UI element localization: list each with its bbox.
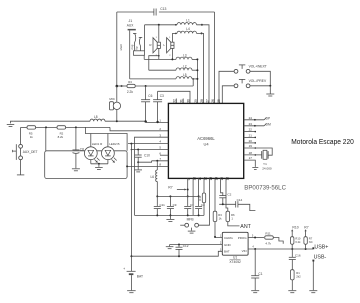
inductor L4 xyxy=(175,27,203,34)
svg-text:C12: C12 xyxy=(183,244,189,248)
net label USB- xyxy=(312,254,326,261)
svg-text:L5: L5 xyxy=(183,73,187,77)
svg-text:shell: shell xyxy=(119,44,123,51)
svg-text:L6: L6 xyxy=(150,175,154,179)
svg-text:C3: C3 xyxy=(160,94,164,98)
svg-text:VOL+/NEXT: VOL+/NEXT xyxy=(249,64,267,68)
svg-text:CHRG: CHRG xyxy=(224,236,233,240)
capacitor C9 xyxy=(167,196,177,215)
wire U4 bottom pin9 xyxy=(187,178,189,197)
ground battery xyxy=(127,291,135,293)
svg-text:C10: C10 xyxy=(144,154,150,158)
svg-text:29: 29 xyxy=(194,99,198,103)
svg-text:32: 32 xyxy=(173,99,177,103)
svg-text:R10: R10 xyxy=(295,236,300,240)
wire speaker R pin line xyxy=(158,25,160,60)
wire L5 row xyxy=(130,78,198,80)
capacitor C11 xyxy=(154,196,165,215)
resistor R11 4.7k xyxy=(265,232,274,246)
svg-text:19: 19 xyxy=(249,144,253,148)
svg-text:MFB: MFB xyxy=(187,217,195,221)
capacitor C6 xyxy=(141,86,153,121)
battery BAT xyxy=(123,256,143,290)
svg-text:22: 22 xyxy=(249,128,253,132)
U4 top pin numbers xyxy=(173,99,221,103)
ground main rail left xyxy=(7,121,15,126)
svg-text:21: 21 xyxy=(249,134,253,138)
ground U1 GND xyxy=(166,247,174,249)
resistor R6 1 xyxy=(226,211,235,221)
U1 pin numbers xyxy=(220,234,255,251)
wire U1 VIN rail xyxy=(248,247,314,250)
svg-text:8.2k: 8.2k xyxy=(58,135,64,139)
wire U1 PROG xyxy=(248,237,264,239)
connector AUX_DET xyxy=(13,127,38,174)
wire R3 to U1 CHRG xyxy=(214,222,222,238)
LED2 B xyxy=(102,134,120,164)
net label USB+ xyxy=(314,245,328,251)
wire U4 bottom pin16 to R6 xyxy=(226,178,228,211)
ground LEDs xyxy=(95,167,103,169)
inductor L6 xyxy=(150,161,157,197)
svg-text:18: 18 xyxy=(249,151,253,155)
wire right vertical from top rail to U4 xyxy=(214,12,216,103)
wire U4 pin18 to crystal xyxy=(244,154,262,156)
connector J1 tip label xyxy=(135,46,139,49)
ground pin17 xyxy=(252,167,258,169)
svg-text:XT4052: XT4052 xyxy=(229,260,241,264)
wire U4 bottom pin12 / resistor R12 xyxy=(198,178,206,215)
wire mic row up to L5 row xyxy=(192,79,194,86)
svg-text:USB-: USB- xyxy=(314,254,327,260)
svg-text:31: 31 xyxy=(180,99,184,103)
svg-text:24.000: 24.000 xyxy=(262,166,272,170)
connector J1 shell label xyxy=(119,44,123,51)
label BP00739-56LC xyxy=(244,184,286,191)
svg-text:28: 28 xyxy=(200,99,204,103)
svg-text:U1: U1 xyxy=(233,256,237,260)
svg-text:AUX: AUX xyxy=(127,24,134,28)
wire R5/R2 row xyxy=(21,126,169,130)
svg-text:L3: L3 xyxy=(183,54,187,58)
svg-text:24: 24 xyxy=(249,116,253,120)
svg-text:C16: C16 xyxy=(295,253,301,257)
wire U4 pin5 xyxy=(131,149,169,151)
svg-text:BP00739-56LC: BP00739-56LC xyxy=(244,184,286,191)
connector J1 body bar xyxy=(128,29,136,31)
U4 bottom pin numbers xyxy=(187,177,229,181)
svg-text:20: 20 xyxy=(249,139,253,143)
wire SW2 right to ground xyxy=(250,85,271,94)
svg-text:USB+: USB+ xyxy=(314,245,328,251)
U4 top pin stubs xyxy=(176,99,183,104)
svg-text:25: 25 xyxy=(217,99,221,103)
svg-text:L2: L2 xyxy=(183,64,187,68)
svg-text:ANT: ANT xyxy=(240,224,251,230)
connector J1 ring label xyxy=(130,44,134,49)
wire main rail xyxy=(13,120,168,123)
capacitor C4 xyxy=(195,196,205,215)
capacitor C7 xyxy=(184,196,194,215)
connector J1 shell pin wire xyxy=(129,30,131,79)
svg-text:C11: C11 xyxy=(160,203,166,207)
net label ANT xyxy=(240,224,251,230)
capacitor C13 xyxy=(154,7,167,16)
svg-text:C9: C9 xyxy=(173,203,177,207)
U4 right pin numbers xyxy=(249,116,253,160)
capacitor C1 xyxy=(251,249,263,290)
capacitor C12 xyxy=(176,244,189,256)
LED module box xyxy=(45,151,127,179)
U4 IC body xyxy=(168,103,243,178)
wire cap row top rail xyxy=(156,195,198,197)
svg-text:GND: GND xyxy=(224,243,232,247)
capacitor C8 xyxy=(73,127,85,168)
capacitor C16 xyxy=(289,249,301,270)
svg-text:L4: L4 xyxy=(186,27,190,31)
wire C2 node rail xyxy=(219,203,236,205)
wire SW1 right xyxy=(250,71,270,86)
switch SW1 VOL+/NEXT xyxy=(234,64,267,73)
resistor R7 NC xyxy=(304,233,313,249)
svg-text:1k: 1k xyxy=(30,135,34,139)
wire R5/R2 node down to LED module xyxy=(45,127,47,151)
U1 reference labels xyxy=(229,256,241,264)
wire J1 box to L3 row xyxy=(143,55,145,59)
svg-text:J1: J1 xyxy=(129,19,133,23)
svg-text:2k2: 2k2 xyxy=(296,275,301,279)
switch SW2 VOL-/PREV xyxy=(234,79,267,88)
wire U4 pin4 xyxy=(128,143,168,145)
wire L1 row left vertical xyxy=(144,25,146,51)
svg-text:26: 26 xyxy=(211,99,215,103)
svg-text:C1: C1 xyxy=(258,272,262,276)
svg-text:6.2k: 6.2k xyxy=(295,240,301,244)
svg-text:C2: C2 xyxy=(227,193,231,197)
svg-text:2.2k: 2.2k xyxy=(127,90,133,94)
svg-text:R7: R7 xyxy=(309,236,313,240)
svg-text:C6: C6 xyxy=(148,94,152,98)
ground MFB xyxy=(188,228,196,234)
svg-text:MIC: MIC xyxy=(109,97,115,101)
wire U4 bottom pin10 xyxy=(192,178,194,215)
svg-text:NC: NC xyxy=(309,240,313,244)
wire LED bottom rail xyxy=(91,163,108,167)
wire U4 pin19 to crystal xyxy=(244,147,273,155)
svg-text:C7: C7 xyxy=(190,203,194,207)
connector J1 switch contact box xyxy=(134,51,145,56)
wire U4 pin to SW2 xyxy=(222,86,234,104)
wire speaker L pin line xyxy=(171,33,173,59)
resistor R10 6.2k xyxy=(291,233,302,249)
wire USB- to ground xyxy=(312,262,314,291)
svg-text:30: 30 xyxy=(186,99,190,103)
wire U4 pin21 stub xyxy=(244,137,256,138)
svg-text:L1: L1 xyxy=(186,19,190,23)
inductor L2 xyxy=(176,64,192,70)
svg-text:R11: R11 xyxy=(265,232,271,236)
ground C1 xyxy=(251,291,259,293)
svg-text:R4: R4 xyxy=(128,80,132,84)
ground switches xyxy=(266,94,274,96)
inductor L1 xyxy=(175,19,203,26)
U1 charger IC body xyxy=(222,232,248,255)
svg-text:BAT: BAT xyxy=(137,274,143,278)
wire speaker R pin2 branch to L2 row xyxy=(149,56,159,70)
net label R10 flag xyxy=(291,225,299,233)
svg-text:tip: tip xyxy=(135,46,139,49)
speaker L xyxy=(163,37,174,57)
wire left vertical from top rail xyxy=(116,12,118,86)
wire U4 pin to SW1 xyxy=(219,71,234,103)
wire cap row bottom rail xyxy=(135,214,205,216)
svg-text:C4: C4 xyxy=(201,203,205,207)
svg-text:PROG: PROG xyxy=(238,236,248,240)
title Motorola Escape 220 xyxy=(291,137,354,146)
svg-text:4.7k: 4.7k xyxy=(265,241,271,245)
svg-text:DM: DM xyxy=(266,123,271,127)
svg-text:C13: C13 xyxy=(160,7,166,11)
wire U4 pin6 stub xyxy=(160,154,168,156)
wire L1 row xyxy=(145,24,177,26)
resistor R5 1k xyxy=(27,126,36,139)
svg-text:R7: R7 xyxy=(304,225,308,229)
ground USB- xyxy=(309,291,317,293)
svg-text:R10: R10 xyxy=(292,225,298,229)
resistor R2 8.2k xyxy=(57,126,66,139)
wire U4 pin22 stub xyxy=(244,131,256,132)
inductor L3 xyxy=(176,54,192,60)
wire L3/L2/L5 vertical to U4 xyxy=(196,58,198,103)
wire U4 pin7 xyxy=(152,160,169,162)
wire LED riser xyxy=(85,127,127,150)
svg-text:VIN: VIN xyxy=(242,249,247,253)
svg-text:17: 17 xyxy=(249,156,253,160)
wire U1 GND rail xyxy=(170,244,223,247)
wire U4 pin8 to LED module xyxy=(126,165,168,167)
resistor R3 1k xyxy=(213,211,222,221)
wire U4 pin3 xyxy=(135,137,169,215)
switch MFB xyxy=(180,217,198,227)
svg-text:VOL-/PREV: VOL-/PREV xyxy=(249,79,267,83)
ground R1 xyxy=(288,291,296,293)
connector J1 tip contact xyxy=(139,37,142,50)
wire C14 right hook xyxy=(238,204,256,210)
svg-text:L8: L8 xyxy=(94,115,98,119)
svg-text:+: + xyxy=(123,267,125,271)
wire U4 bottom pin14 to R3 xyxy=(214,178,216,211)
svg-text:AC6966L: AC6966L xyxy=(197,136,215,141)
ground cap row xyxy=(166,215,174,221)
ground below C10 xyxy=(134,162,142,172)
wire L1 row right / vertical to U4 xyxy=(197,25,210,104)
U4 left pin numbers xyxy=(159,119,161,167)
svg-text:ring: ring xyxy=(130,44,134,49)
ground C8 xyxy=(72,169,80,171)
LED1 R xyxy=(84,134,103,164)
svg-text:Motorola Escape 220: Motorola Escape 220 xyxy=(291,137,354,146)
wire C3 top to U4 xyxy=(158,91,190,103)
svg-text:23: 23 xyxy=(249,122,253,126)
svg-text:R7: R7 xyxy=(168,186,172,190)
svg-text:LED2 B: LED2 B xyxy=(109,142,119,146)
wire U4 bottom pin11 xyxy=(198,178,200,197)
svg-text:C14: C14 xyxy=(237,198,243,202)
capacitor C2 xyxy=(219,193,231,205)
svg-text:C8: C8 xyxy=(80,148,84,152)
capacitor C14 xyxy=(236,198,243,207)
inductor L5 xyxy=(176,73,192,79)
wire battery rail vertical xyxy=(130,144,132,257)
connector J1 ring contact xyxy=(133,33,136,50)
resistor R1 2k2 xyxy=(291,270,302,291)
wire U4 pin17 to ground xyxy=(244,160,256,167)
wire C10 bottom jog to pin7 xyxy=(138,161,151,162)
net label R7 arrow xyxy=(168,186,187,191)
wire U4 pin24 DP xyxy=(244,117,271,121)
capacitor C3 xyxy=(153,91,164,122)
wire top rail from C13 left xyxy=(117,11,215,13)
wire U4 pin20 stub xyxy=(244,142,256,143)
svg-text:AUX_DET: AUX_DET xyxy=(23,150,38,154)
wire R11 right hook xyxy=(273,238,283,244)
resistor R4 2.2k xyxy=(127,80,135,94)
svg-text:27: 27 xyxy=(205,99,209,103)
wire L4 row xyxy=(172,33,203,103)
svg-text:U4: U4 xyxy=(203,142,209,147)
wire R4 row xyxy=(116,85,194,88)
wire U4 bottom pin13 to MFB xyxy=(199,178,210,225)
wire U4 bottom pin15 to C2 xyxy=(221,178,223,195)
wire L2 row xyxy=(149,69,198,71)
capacitor C10 xyxy=(135,150,150,164)
inductor L8 xyxy=(90,115,105,121)
crystal Y1 24.000 xyxy=(262,150,272,170)
microphone MIC xyxy=(109,86,120,121)
svg-text:BAT: BAT xyxy=(224,250,230,254)
svg-text:DP: DP xyxy=(266,117,271,121)
wire L3 row xyxy=(144,58,197,60)
wire R6 to ANT xyxy=(228,222,240,226)
wire U1 BAT rail xyxy=(130,251,222,257)
wire U4 pin23 DM xyxy=(244,123,271,127)
net label R7 flag xyxy=(304,225,308,233)
svg-text:LED1 R: LED1 R xyxy=(92,142,103,146)
speaker R xyxy=(149,37,160,57)
connector J1 AUX label xyxy=(127,19,134,27)
